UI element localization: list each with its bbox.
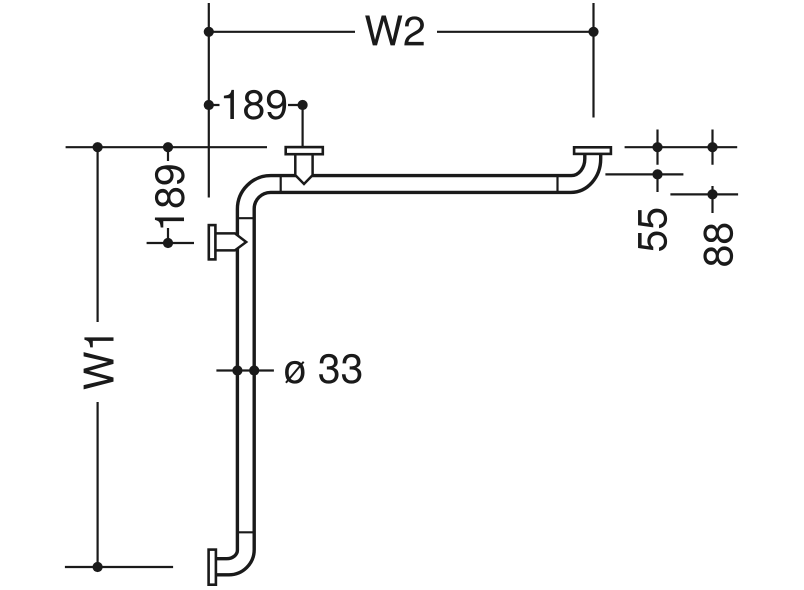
tube seam near corner horizontal tube <box>280 176 282 193</box>
node: W2 dimension end dots <box>204 27 599 37</box>
label W2 <box>365 16 424 46</box>
wire: 189 left vertical dimension line <box>147 147 194 243</box>
tube seam near right elbow <box>556 176 558 193</box>
label 189 left rotated <box>155 165 185 227</box>
support bracket top: stem and arrow <box>295 154 312 184</box>
tube seam near bottom elbow <box>237 531 254 533</box>
wire: wall reference line left <box>66 146 267 148</box>
wire: right extension vertical line <box>592 3 594 118</box>
wire: 88 dimension line <box>670 186 738 213</box>
label 189 top <box>224 90 286 120</box>
wire: diameter 33 tick line <box>216 369 274 371</box>
label diameter 33 <box>285 354 361 384</box>
tube seam near corner vertical tube <box>237 217 254 219</box>
wire: W1 dimension vertical line <box>65 147 173 567</box>
wall flange plate right <box>574 147 611 154</box>
wire: right wall reference line <box>625 130 738 165</box>
wire: left wall extension vertical line <box>208 3 210 198</box>
wire: 189 top dimension line stubs <box>209 105 303 147</box>
wire: W2 dimension line horizontal segments <box>209 31 594 33</box>
node: 189 left end dot <box>163 238 173 248</box>
node: W1 end dot <box>93 562 103 572</box>
node: right wall line dots <box>652 142 717 152</box>
node: diameter 33 dots <box>232 365 259 375</box>
grab rail tube inner contour <box>216 154 601 575</box>
support bracket left: stem and arrow <box>215 233 246 250</box>
wall bracket plate left <box>209 225 216 259</box>
wall flange plate bottom <box>209 550 216 585</box>
label 88 rotated <box>703 224 733 266</box>
grab rail tube outer contour <box>216 154 585 559</box>
wall flange plate top <box>286 147 323 154</box>
label W1 rotated <box>84 337 114 389</box>
label 55 rotated <box>638 209 667 251</box>
wire: 55 dimension line <box>605 171 683 192</box>
node: wall line dots <box>93 142 174 152</box>
node: 189 top dimension dots <box>204 100 308 110</box>
node: 55 dimension dot <box>652 169 662 179</box>
node: 88 dimension dot <box>707 189 717 199</box>
